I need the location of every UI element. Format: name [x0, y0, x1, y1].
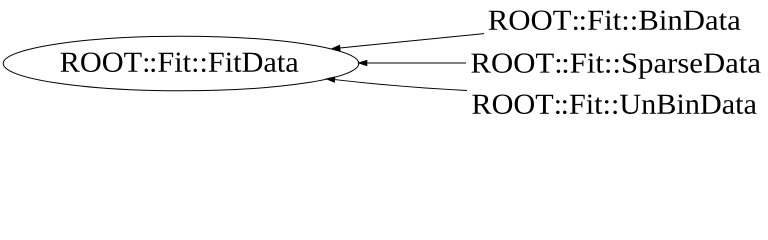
node U1 label ROOT::Fit::FitData: [61, 53, 299, 73]
arrowhead edge SparseData: [359, 60, 367, 65]
arrowhead edge BinData: [332, 45, 340, 50]
node N3 label ROOT::Fit::UnBinData: [472, 95, 756, 115]
node U1 FitData ellipse: [3, 36, 359, 91]
wire edge SparseData to FitData: [367, 62, 466, 64]
arrowhead edge UnBinData: [327, 77, 335, 82]
node N2 label ROOT::Fit::SparseData: [471, 53, 760, 78]
wire edge BinData to FitData: [340, 34, 484, 48]
wire edge UnBinData to FitData: [335, 80, 467, 91]
node N1 label ROOT::Fit::BinData: [489, 11, 741, 31]
